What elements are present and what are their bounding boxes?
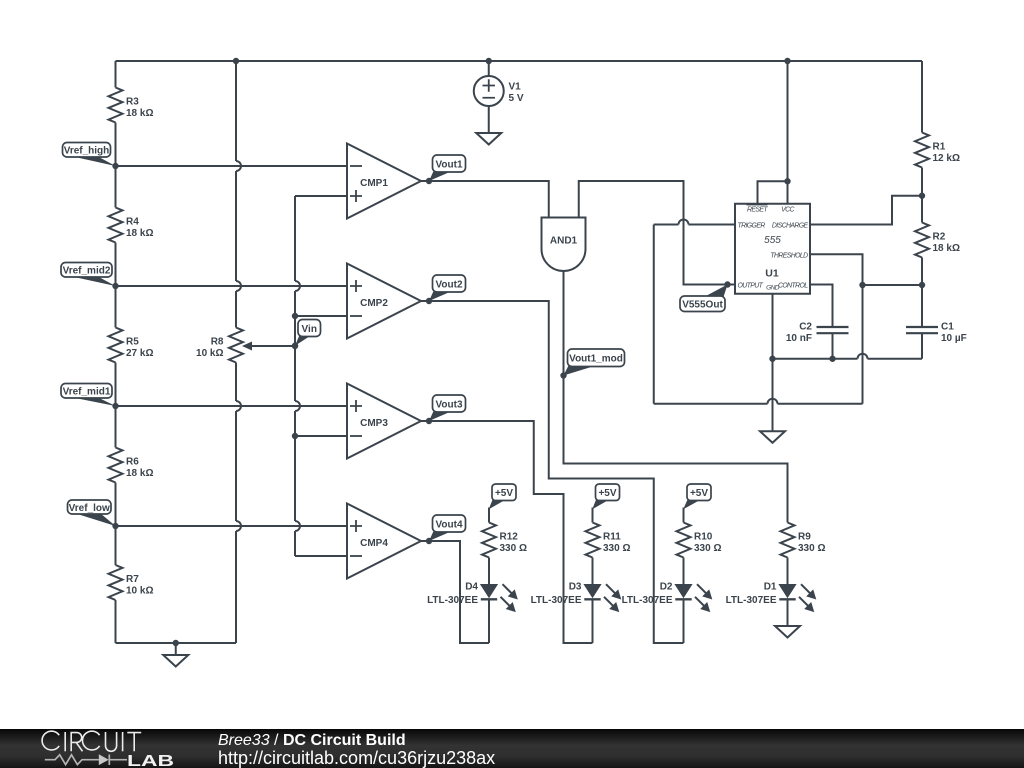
svg-text:Vref_mid2: Vref_mid2 (63, 266, 111, 277)
wire V1 top stem (488, 61, 490, 76)
wire TRIGGER-THRESHOLD tie across (654, 399, 863, 404)
svg-text:18 kΩ: 18 kΩ (126, 108, 153, 119)
resistor R2 (915, 223, 960, 258)
svg-text:TRIGGER: TRIGGER (738, 223, 766, 230)
svg-text:330 Ω: 330 Ω (603, 543, 630, 554)
svg-text:OUTPUT: OUTPUT (738, 283, 764, 290)
svg-text:Vout4: Vout4 (435, 519, 462, 530)
svg-text:10 µF: 10 µF (941, 333, 967, 344)
svg-text:10 nF: 10 nF (786, 333, 812, 344)
footer bar (0, 729, 1024, 768)
svg-text:330 Ω: 330 Ω (798, 543, 825, 554)
resistor R3 (109, 88, 154, 123)
wire Vref_mid1 wire (116, 405, 348, 407)
wire right rail top (921, 61, 923, 133)
wire TRIGGER-THRESHOLD tie up (862, 285, 864, 404)
wire left rail R6-R7 (115, 483, 117, 566)
junction GND-555 (769, 356, 775, 362)
wire analog ground wire (773, 354, 923, 359)
svg-text:10 kΩ: 10 kΩ (126, 586, 153, 597)
svg-text:C1: C1 (941, 322, 954, 333)
AND gate AND1 (542, 218, 586, 272)
svg-text:CMP2: CMP2 (360, 298, 388, 309)
CircuitLab logo (0, 729, 220, 768)
junction R2-C1 node (919, 282, 925, 288)
wire Vin bus (295, 196, 300, 556)
node Vref_high (63, 143, 119, 170)
wire R1-R2 link (921, 168, 923, 223)
svg-text:R1: R1 (933, 142, 946, 153)
wire C2 bottom stem (832, 333, 834, 359)
wire left rail R3 top (115, 61, 117, 88)
wire left rail R4-R5 (115, 243, 117, 328)
wire 555 DISCHARGE wire (810, 196, 922, 225)
wire AND1 input2 from 555 output (579, 181, 735, 285)
svg-text:R3: R3 (126, 97, 139, 108)
svg-text:Vref_low: Vref_low (69, 503, 110, 514)
svg-text:Vout3: Vout3 (435, 399, 462, 410)
node +5V D2 (683, 484, 711, 509)
wire D2 column (683, 508, 685, 523)
svg-text:+5V: +5V (598, 488, 616, 499)
svg-text:Vout2: Vout2 (435, 279, 462, 290)
wire Vref_low wire (116, 525, 348, 527)
voltage source V1 (474, 76, 524, 106)
svg-text:R2: R2 (933, 232, 946, 243)
svg-text:R4: R4 (126, 217, 139, 228)
svg-text:THRESHOLD: THRESHOLD (770, 252, 808, 259)
wire Vout3 wire to D3 (421, 421, 593, 643)
svg-text:330 Ω: 330 Ω (500, 543, 527, 554)
junction Vin-wiper (292, 343, 298, 349)
svg-text:D2: D2 (660, 582, 673, 593)
wire D4 anode wire (488, 558, 490, 585)
svg-text:C2: C2 (799, 322, 812, 333)
resistor R8 (196, 328, 243, 363)
wire left rail R5-R6 (115, 363, 117, 448)
node +5V D3 (592, 484, 619, 509)
wire CMP2 minus input wire (295, 315, 347, 317)
svg-text:CMP4: CMP4 (360, 538, 388, 549)
resistor R9 (781, 523, 826, 558)
wire R2 to C1 (921, 258, 923, 328)
op-amp CMP3 (347, 384, 421, 459)
node +5V D4 (489, 484, 516, 509)
wire Vout1 wire to AND1 (421, 181, 549, 218)
junction THRESHOLD tie (859, 282, 865, 288)
wire Vout2 wire to D2 (421, 301, 684, 643)
node Vref_mid1 (61, 384, 119, 410)
svg-text:GND: GND (766, 285, 780, 292)
resistor R10 (677, 523, 722, 558)
wire THRESHOLD to R2-C1 node (863, 284, 923, 286)
svg-text:27 kΩ: 27 kΩ (126, 348, 153, 359)
svg-text:LTL-307EE: LTL-307EE (622, 595, 673, 606)
wire 555 RESET wire (758, 181, 788, 204)
junction GND-C2 (829, 356, 835, 362)
svg-text:Vref_mid1: Vref_mid1 (63, 387, 111, 398)
junction top rail / VCC (784, 58, 790, 64)
svg-text:LTL-307EE: LTL-307EE (427, 595, 478, 606)
svg-text:D1: D1 (764, 582, 777, 593)
svg-text:+5V: +5V (495, 488, 513, 499)
svg-text:R8: R8 (211, 337, 224, 348)
resistor R12 (482, 523, 527, 558)
wire R8 rail upper (236, 61, 241, 328)
svg-text:R11: R11 (603, 532, 621, 543)
ground 555 ground (760, 431, 785, 443)
node Vout1_mod (560, 349, 624, 379)
wire Vref_mid2 wire (116, 285, 348, 287)
node Vout1 (426, 155, 466, 184)
svg-text:18 kΩ: 18 kΩ (933, 243, 960, 254)
ground ladder ground (163, 655, 188, 667)
junction Vin-CMP2 (292, 313, 298, 319)
op-amp CMP1 (347, 144, 421, 219)
svg-text:Vin: Vin (302, 324, 317, 335)
capacitor C1 (906, 322, 967, 345)
svg-text:LAB: LAB (127, 753, 174, 768)
555 timer U1 (735, 204, 810, 294)
potentiometer R8 wiper (242, 342, 295, 351)
junction ladder ground (173, 640, 179, 646)
wire left rail R3-R4 (115, 123, 117, 208)
junction top rail / V1 (486, 58, 492, 64)
node Vout4 (426, 515, 466, 544)
wire D2 cathode wire (683, 599, 685, 643)
svg-text:12 kΩ: 12 kΩ (933, 153, 960, 164)
svg-text:18 kΩ: 18 kΩ (126, 468, 153, 479)
svg-text:555: 555 (764, 235, 781, 246)
resistor R7 (109, 565, 154, 600)
wire top rail (116, 60, 923, 62)
wire 555 TRIGGER wire (654, 220, 735, 225)
wire V1 bottom stem (488, 106, 490, 133)
wire 555 GND stem (772, 294, 774, 359)
svg-text:R9: R9 (798, 532, 811, 543)
wire CMP4 minus input wire (295, 555, 347, 557)
node Vref_mid2 (61, 263, 119, 290)
svg-text:10 kΩ: 10 kΩ (196, 348, 223, 359)
junction top rail / R8 rail (233, 58, 239, 64)
svg-text:DISCHARGE: DISCHARGE (772, 223, 809, 230)
svg-text:+5V: +5V (690, 488, 708, 499)
node Vref_low (68, 500, 119, 529)
op-amp CMP2 (347, 264, 421, 339)
svg-text:CMP1: CMP1 (360, 178, 388, 189)
wire D3 cathode wire (592, 599, 594, 643)
resistor R5 (109, 328, 154, 363)
wire D3 column (592, 508, 594, 523)
node Vin (292, 320, 321, 349)
resistor R6 (109, 448, 154, 483)
svg-text:Vout1: Vout1 (435, 159, 462, 170)
LED D1 (726, 582, 817, 613)
svg-text:R12: R12 (500, 532, 519, 543)
wire 555 THRESHOLD wire (810, 254, 863, 285)
svg-text:V1: V1 (509, 82, 522, 93)
svg-text:VCC: VCC (781, 207, 795, 214)
svg-text:R6: R6 (126, 457, 139, 468)
wire C1 bottom stem (921, 333, 923, 359)
LED D2 (622, 582, 713, 613)
wire CMP1 plus input wire (295, 195, 347, 197)
wire D1 cathode wire (787, 599, 789, 626)
svg-text:R10: R10 (694, 532, 713, 543)
svg-text:R7: R7 (126, 574, 139, 585)
svg-text:D4: D4 (465, 582, 478, 593)
resistor R4 (109, 208, 154, 243)
wire Vout4 wire to D4 (421, 541, 489, 643)
node V555Out (680, 281, 731, 311)
svg-text:18 kΩ: 18 kΩ (126, 228, 153, 239)
wire 555 CONTROL wire (810, 285, 833, 328)
wire CMP3 minus input wire (295, 435, 347, 437)
wire 555 VCC wire (787, 61, 789, 204)
svg-text:AND1: AND1 (550, 236, 578, 247)
wire Vref_high wire (116, 165, 348, 167)
wire D3 anode wire (592, 558, 594, 585)
junction Vin-CMP3 (292, 433, 298, 439)
svg-text:CONTROL: CONTROL (778, 283, 808, 290)
ground V1 ground (476, 133, 501, 145)
svg-text:U1: U1 (765, 268, 779, 280)
svg-text:5 V: 5 V (509, 93, 524, 104)
svg-text:Vout1_mod: Vout1_mod (569, 354, 623, 365)
junction RESET-VCC (784, 178, 790, 184)
wire R8 rail lower (236, 363, 241, 644)
junction R1-R2-DISCHARGE (919, 193, 925, 199)
LED D4 (427, 582, 518, 613)
ground D1 ground (775, 626, 800, 638)
svg-text:LTL-307EE: LTL-307EE (531, 595, 582, 606)
wire left rail R7 bottom (115, 600, 117, 643)
svg-text:D3: D3 (569, 582, 582, 593)
LED D3 (531, 582, 622, 613)
wire TRIGGER-THRESHOLD tie down (653, 225, 655, 404)
resistor R1 (915, 133, 960, 168)
wire D4 column (488, 508, 490, 523)
svg-text:CMP3: CMP3 (360, 418, 388, 429)
wire AND1 output to R9 (564, 271, 788, 523)
wire D4 cathode wire (488, 599, 490, 643)
wire ladder ground stem (175, 643, 177, 655)
svg-text:V555Out: V555Out (682, 300, 723, 311)
resistor R11 (586, 523, 631, 558)
svg-text:330 Ω: 330 Ω (694, 543, 721, 554)
node Vout3 (426, 395, 466, 424)
capacitor C2 (786, 322, 849, 345)
wire 555 ground stem lower (772, 359, 774, 432)
node Vout2 (426, 275, 466, 304)
wire D2 anode wire (683, 558, 685, 585)
wire bottom ground wire (116, 642, 237, 644)
op-amp CMP4 (347, 504, 421, 579)
svg-text:LTL-307EE: LTL-307EE (726, 595, 777, 606)
svg-text:Vref_high: Vref_high (64, 146, 110, 157)
svg-text:R5: R5 (126, 337, 139, 348)
wire D1 anode wire (787, 558, 789, 585)
svg-text:RESET: RESET (747, 207, 768, 214)
